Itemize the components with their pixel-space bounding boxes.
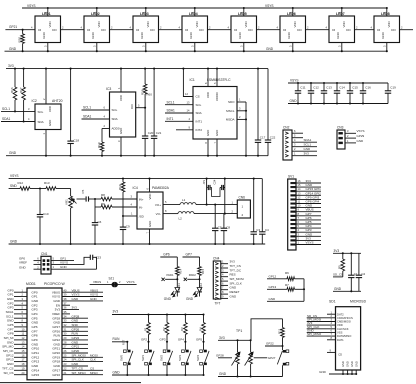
svg-text:SV1: SV1 (288, 174, 294, 178)
wire CN2 pin 5 (292, 134, 303, 138)
wire LED4 VDD to VSYS (191, 7, 196, 16)
wire riser VO- to VSYS (224, 178, 226, 214)
connector CN2 (283, 125, 292, 160)
svg-text:SCL1: SCL1 (167, 100, 175, 104)
resistor R9 (101, 202, 112, 209)
svg-text:DI: DI (332, 28, 335, 32)
node GP2 (141, 338, 150, 350)
wire SV1 pin 15 (296, 183, 321, 187)
svg-text:GP3: GP3 (159, 338, 165, 342)
microSD socket SD1 (336, 307, 361, 370)
wire MOD1 right pin 38 GND (62, 297, 103, 301)
wire IC1 VDD to 3V3 (204, 68, 209, 87)
capacitor snubber B (213, 179, 225, 190)
capacitor C21 (151, 68, 162, 157)
capacitor C11 (295, 82, 306, 105)
svg-text:GND: GND (290, 99, 298, 103)
svg-text:C15: C15 (352, 86, 358, 90)
resistor R3 (180, 313, 187, 341)
svg-text:SND: SND (72, 323, 79, 327)
wire SV1 pin 6 (296, 220, 321, 224)
wire LED1 DO to LED2 DI (61, 25, 85, 29)
svg-text:GP1: GP1 (7, 293, 13, 297)
wire SV1 pin 10 (296, 204, 321, 208)
svg-text:3V3: 3V3 (8, 64, 14, 68)
resistor R19 (97, 129, 104, 157)
svg-text:GND: GND (91, 32, 95, 38)
capacitor C6 (92, 207, 102, 245)
svg-text:DO: DO (199, 28, 204, 32)
wire CN1 GND (51, 265, 97, 269)
inductor L1 (180, 203, 196, 205)
power rail VSYS (cap bank) (288, 79, 388, 83)
resistor R11 (277, 319, 284, 346)
svg-text:3V3: 3V3 (334, 249, 340, 253)
svg-text:VDD: VDD (244, 21, 248, 27)
svg-text:INT2: INT2 (196, 128, 203, 132)
svg-text:GND: GND (9, 47, 17, 51)
wire MOD1 left pin 5 GP3 (7, 306, 27, 310)
svg-text:C18: C18 (74, 139, 80, 143)
wire R10 to IC4 /SD (123, 212, 137, 216)
svg-text:CN6: CN6 (239, 195, 246, 199)
LED driver LED6 (280, 12, 306, 43)
svg-text:DI: DI (283, 28, 286, 32)
pin labels CN6 (232, 200, 234, 213)
sensor IC2 AHT20 (32, 99, 63, 130)
wire SV1 pin 8 (296, 212, 321, 216)
wire SCL1 to IC2 (1, 107, 35, 111)
wire CN2 pin 6 (292, 129, 303, 133)
LED driver LED4 (182, 12, 208, 43)
svg-text:3V3: 3V3 (304, 152, 310, 156)
svg-text:SW5: SW5 (120, 354, 124, 361)
svg-text:VSYS: VSYS (265, 4, 274, 8)
resistor R5 (338, 253, 345, 277)
wire IC1 VDDIO to 3V3 (213, 68, 218, 87)
svg-text:C12: C12 (313, 86, 319, 90)
svg-text:MISO: MISO (90, 371, 98, 375)
wire MOD1 right pin 36 3V3 (62, 306, 79, 310)
wire IC4 GND pin (145, 229, 150, 245)
svg-text:GP13: GP13 (32, 360, 40, 364)
wire GP22 (265, 342, 284, 347)
svg-text:DAT0/MISO: DAT0/MISO (337, 334, 351, 338)
svg-text:DI: DI (377, 28, 380, 32)
svg-text:/SD: /SD (139, 214, 145, 218)
svg-text:CLK: CLK (90, 358, 96, 362)
wire MOD1 left pin 11 GP8 (7, 332, 27, 336)
svg-text:GND: GND (19, 265, 27, 269)
svg-text:SD_CS: SD_CS (3, 371, 13, 375)
capacitor C9 (120, 216, 130, 245)
svg-text:GND: GND (304, 147, 312, 151)
svg-text:C22: C22 (270, 136, 276, 140)
svg-text:VDD: VDD (119, 95, 123, 101)
svg-text:VSYS: VSYS (27, 4, 36, 8)
svg-text:GP13: GP13 (6, 358, 14, 362)
svg-text:GP6: GP6 (32, 325, 38, 329)
svg-text:SND: SND (10, 184, 17, 188)
svg-text:SCL1: SCL1 (83, 106, 91, 110)
resistor R2 (162, 313, 169, 341)
svg-text:VO-: VO- (156, 212, 161, 216)
svg-text:CS: CS (196, 95, 200, 99)
svg-text:R20: R20 (18, 37, 22, 43)
resistor R14 (176, 263, 183, 279)
solder jumper SJ1 (90, 276, 137, 286)
LED driver LED7 (329, 12, 355, 43)
svg-text:GND: GND (60, 265, 68, 269)
wire SV1 pin 11 (296, 200, 321, 204)
node GP4 (178, 338, 187, 350)
label SD1 MICROSD (329, 300, 367, 304)
power rail VSYS (audio) (9, 174, 263, 178)
wire SDA1 to IC1 (165, 109, 193, 113)
svg-text:VSYS: VSYS (306, 241, 314, 245)
svg-text:VSYS: VSYS (52, 295, 60, 299)
svg-text:VSYS: VSYS (10, 174, 19, 178)
wire LED3 VDD to VSYS (142, 7, 147, 16)
svg-text:VDD: VDD (337, 323, 343, 327)
wire SD_CS to R5 (333, 273, 343, 277)
capacitor snubber A (202, 179, 212, 190)
svg-text:MSDA: MSDA (226, 118, 235, 122)
svg-text:SCL: SCL (112, 108, 118, 112)
wire MOD1 left pin 19 TFT_CS (2, 366, 27, 370)
node junction R15/LED12 (198, 278, 200, 280)
wire R6 out (295, 278, 305, 280)
wire CN4 pin 2 (221, 264, 241, 268)
wire MOD1 left pin 13 GND (7, 340, 27, 344)
svg-text:GND: GND (357, 139, 365, 143)
svg-text:DVI: DVI (130, 104, 134, 109)
svg-text:R1: R1 (143, 327, 147, 331)
wire R9 to IC4 IN- (112, 203, 137, 207)
wire SD1 pin 1 (327, 310, 336, 314)
svg-text:R3: R3 (180, 327, 184, 331)
svg-text:GND: GND (287, 32, 291, 38)
svg-text:SPI_MI: SPI_MI (4, 336, 14, 340)
svg-text:GP17: GP17 (52, 368, 60, 372)
svg-text:VDD: VDD (146, 21, 150, 27)
svg-text:GP27: GP27 (52, 325, 60, 329)
svg-text:DO: DO (391, 28, 396, 32)
IMU IC1 LSM6DS3TR-C (190, 78, 238, 139)
svg-text:MSCL: MSCL (226, 109, 235, 113)
svg-text:GP29: GP29 (357, 134, 365, 138)
svg-text:GND: GND (206, 130, 210, 136)
svg-text:GND: GND (381, 32, 385, 38)
wire MOD1 left pin 1 GP0 (7, 288, 27, 292)
svg-text:R8: R8 (101, 193, 105, 197)
pushbutton SW5 (RUN) (120, 339, 133, 376)
svg-text:C8: C8 (226, 225, 230, 229)
capacitor C15 (347, 82, 358, 105)
svg-text:TFT: TFT (215, 302, 221, 306)
svg-text:SDA1: SDA1 (2, 117, 11, 121)
wire LED2 GND to rail (93, 43, 98, 53)
wire SV1 pin 4 (296, 228, 321, 232)
capacitor C8 (221, 214, 231, 245)
wire IC4 VDD to VSYS (145, 178, 150, 192)
svg-text:R11: R11 (277, 328, 281, 334)
svg-text:SW1: SW1 (141, 354, 145, 361)
wire CN4 pin 9 (221, 294, 237, 298)
svg-text:C9: C9 (126, 225, 130, 229)
svg-text:GP6: GP6 (163, 253, 170, 257)
wire MOD1 right pin 23 GND (62, 362, 88, 366)
svg-text:GP22: GP22 (72, 336, 80, 340)
wire CN4 pin 1 (221, 260, 235, 264)
svg-text:SDO: SDO (228, 100, 235, 104)
wire MOD1 left pin 12 SPI_MI (4, 336, 27, 340)
inductor L2 (178, 212, 194, 221)
resistor R16 (10, 68, 17, 113)
label TP1 (236, 329, 242, 333)
svg-text:VSYS: VSYS (72, 293, 80, 297)
svg-text:R18: R18 (140, 89, 144, 95)
svg-text:GND: GND (164, 297, 172, 301)
svg-text:GP5: GP5 (196, 338, 202, 342)
svg-text:GND: GND (215, 130, 219, 136)
wire MOD1 right pin 25 SPI_MOSI (62, 353, 103, 357)
svg-text:VDD: VDD (206, 92, 210, 98)
wire MOD1 right pin 27 GP21 (62, 345, 88, 349)
wire IC2 VDD to 3V3 (42, 68, 47, 104)
svg-text:DAT2: DAT2 (337, 312, 344, 316)
svg-text:R9: R9 (101, 202, 105, 206)
wire IC1 MSCL (237, 106, 246, 110)
connector CN1 (41, 252, 51, 274)
resistor R4 (198, 313, 205, 341)
svg-text:GND: GND (346, 361, 350, 367)
test pad PAD2 (184, 273, 200, 281)
wire LED12 to GND (186, 292, 200, 301)
wire CN3 pin 2 (345, 134, 365, 138)
svg-text:CN2: CN2 (283, 125, 290, 129)
wire LED6 DO to LED7 DI (306, 25, 330, 29)
pushbutton SW1 (141, 350, 154, 376)
svg-text:DI: DI (87, 28, 90, 32)
wire GP13 to R7 (267, 285, 287, 289)
capacitor C3 (251, 178, 261, 246)
svg-text:C4: C4 (265, 228, 269, 232)
svg-text:C24: C24 (213, 179, 217, 184)
capacitor C10 (37, 189, 49, 246)
pushbutton SW3 (178, 350, 191, 376)
wire CN4 pin 3 (221, 268, 242, 272)
svg-text:VSYS: VSYS (127, 280, 135, 284)
svg-text:TFT_CS: TFT_CS (72, 366, 83, 370)
svg-text:R7: R7 (285, 283, 289, 287)
jumper bracket (212, 188, 220, 197)
svg-text:VDD: VDD (342, 21, 346, 27)
resistor R12 (18, 181, 31, 190)
svg-text:C17: C17 (260, 136, 266, 140)
svg-text:R17: R17 (19, 87, 23, 93)
svg-text:EN: EN (56, 303, 60, 307)
wire MOD1 left pin 3 GND (7, 297, 27, 301)
wire INT1 to IC1 (165, 117, 193, 121)
wire IC3 VDD to 3V3 (117, 68, 122, 92)
svg-text:GND: GND (230, 286, 238, 290)
wire L2 to CN6 pin2 (194, 213, 237, 215)
wire SDA1 to IC3 (82, 115, 110, 119)
wire LED3 DO to LED4 DI (159, 25, 183, 29)
wire SD1 pin 6 (307, 329, 336, 333)
svg-text:GND: GND (230, 294, 238, 298)
wire GP6 to R14 (160, 253, 177, 263)
capacitor C4 (259, 179, 269, 244)
capacitor C13 (321, 82, 332, 105)
svg-text:R5: R5 (338, 265, 342, 269)
svg-text:DI: DI (185, 28, 188, 32)
svg-text:R4: R4 (198, 327, 202, 331)
svg-text:C16: C16 (365, 86, 371, 90)
svg-text:TP1: TP1 (236, 329, 242, 333)
LED driver LED5 (231, 12, 257, 43)
net label VSYS (mid) (265, 4, 274, 8)
LED driver LED1 (35, 12, 61, 43)
svg-text:VSYS: VSYS (90, 293, 98, 297)
wire MOD1 left pin 18 GND (7, 362, 27, 366)
svg-text:GP16: GP16 (52, 373, 60, 377)
wire CN1 left pin 2 (19, 265, 41, 269)
svg-text:SDA1: SDA1 (83, 115, 92, 119)
svg-text:GND: GND (266, 47, 274, 51)
svg-text:R6: R6 (285, 271, 289, 275)
wire R13 to VR1 (56, 188, 71, 190)
svg-text:JP1: JP1 (202, 179, 206, 184)
potentiometer VR1 (65, 189, 77, 246)
wire GP21 to LED1 DI (5, 25, 35, 30)
svg-text:SDA: SDA (112, 117, 118, 121)
capacitor C1 (348, 253, 358, 292)
wire MOD1 right pin 29 GP22 (62, 336, 88, 340)
wire SD1 GND pins (319, 370, 357, 375)
wire SD1 pin 7 (307, 332, 336, 336)
node GP5 (196, 338, 205, 350)
wire CN2 pin 1 (292, 152, 317, 156)
svg-text:GND: GND (42, 32, 46, 38)
svg-text:SPI_CLK: SPI_CLK (72, 358, 84, 362)
wire SDA1 to IC2 (1, 117, 35, 122)
capacitor C2 (356, 253, 366, 291)
svg-text:R12: R12 (18, 181, 24, 185)
wire CN1 VSYS to C23 (51, 257, 89, 264)
svg-text:VDD: VDD (387, 21, 391, 27)
wire CN4 pin 7 (221, 286, 237, 290)
ground rail GND (TP1) (218, 339, 283, 376)
connector CN4 TFT (213, 256, 221, 305)
svg-text:3V3: 3V3 (219, 336, 225, 340)
pushbutton SW4 (196, 350, 209, 376)
capacitor C19 (385, 83, 396, 104)
wire MOD1 right pin 26 GP20 (62, 349, 88, 353)
svg-text:SW4: SW4 (196, 354, 200, 361)
svg-text:INT1: INT1 (167, 117, 174, 121)
wire IC1 GND pin A (204, 139, 209, 157)
svg-text:R14: R14 (179, 268, 183, 274)
svg-text:SW3: SW3 (178, 354, 182, 361)
power rail 3V3 (buttons) (112, 310, 204, 315)
pushbutton SW2 (159, 350, 172, 376)
wire MOD1 left pin 10 GP7 (7, 327, 27, 331)
wire CN1 GP1 (51, 257, 74, 261)
svg-text:L1: L1 (182, 198, 186, 202)
LED driver LED2 (84, 12, 110, 43)
svg-text:SPI_MO: SPI_MO (2, 345, 14, 349)
svg-text:DO: DO (346, 28, 351, 32)
svg-text:C5: C5 (81, 189, 85, 193)
svg-text:VREF: VREF (19, 261, 27, 265)
wire MOD1 right pin 28 GND (62, 340, 88, 344)
svg-text:MOD1: MOD1 (26, 282, 36, 286)
svg-text:GP12: GP12 (269, 274, 277, 278)
svg-text:RES: RES (230, 273, 236, 277)
svg-text:GND: GND (186, 297, 194, 301)
svg-text:GP10: GP10 (32, 347, 40, 351)
wire MOD1 right pin 30 RUN (62, 332, 88, 336)
svg-text:RST: RST (122, 339, 126, 345)
svg-text:GP7: GP7 (186, 253, 193, 257)
svg-text:IC2: IC2 (32, 99, 37, 103)
wire 3V3 (TP1) (218, 336, 251, 341)
svg-text:C20: C20 (148, 131, 154, 135)
svg-text:C2: C2 (361, 272, 365, 276)
wire junction to R9 (95, 199, 101, 207)
svg-text:GP28: GP28 (216, 354, 224, 358)
wire LED8 VDD to VSYS (383, 7, 388, 16)
svg-text:R60: R60 (146, 93, 152, 97)
svg-text:VBUS: VBUS (93, 280, 101, 284)
svg-text:DO: DO (101, 28, 106, 32)
wire LED5 VDD to VSYS (240, 7, 245, 16)
svg-text:GP15: GP15 (32, 373, 40, 377)
wire CN4 pin 5 (221, 277, 244, 281)
svg-text:VSYS: VSYS (290, 79, 299, 83)
LED LED11 (171, 279, 181, 296)
wire MOD1 left pin 4 GP2 (7, 301, 27, 305)
wire LED6 VDD to VSYS (289, 7, 294, 16)
svg-text:GP4: GP4 (178, 338, 184, 342)
svg-text:GND: GND (354, 361, 358, 367)
ground rail GND (SD) (333, 287, 361, 291)
svg-text:DI: DI (38, 28, 41, 32)
connector CN6 (237, 195, 250, 218)
node junction GP21/R20 (22, 29, 24, 31)
wire MOD1 right pin 40 VBUS (62, 288, 103, 292)
wire IC1 right pins to GND (245, 102, 247, 157)
capacitor C18 (67, 68, 79, 157)
svg-text:VDD: VDD (195, 21, 199, 27)
svg-text:SCL1: SCL1 (2, 107, 10, 111)
wire SV1 pin 7 (296, 216, 321, 220)
power rail VSYS (LED chain) (22, 4, 386, 8)
svg-text:DI: DI (234, 28, 237, 32)
wire MOD1 left pin 7 SCL1 (6, 314, 27, 318)
wire riser VO+ to VSYS (206, 178, 208, 205)
wire LED1 VDD to VSYS (44, 7, 49, 16)
svg-text:GND: GND (319, 370, 327, 374)
wire IC1 SDO (237, 98, 246, 102)
svg-text:TFT_CS: TFT_CS (2, 366, 13, 370)
wire VR1 wiper to C5 (77, 198, 86, 200)
ground rail GND (cap bank) (288, 99, 388, 103)
svg-text:DO: DO (297, 28, 302, 32)
svg-text:GP6: GP6 (7, 323, 13, 327)
